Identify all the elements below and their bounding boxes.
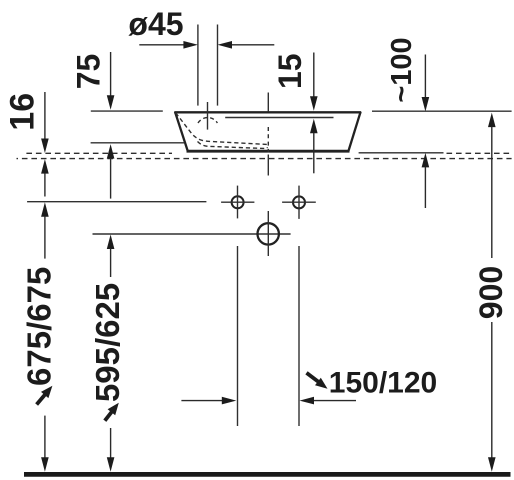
dim 900 line upper	[488, 113, 496, 128]
drain vertical centerline	[207, 102, 209, 130]
dim 75 line lower	[107, 144, 115, 159]
big circle crosshair v	[267, 211, 269, 256]
dim ø45 left arrow	[139, 44, 184, 46]
counter top dashed line right	[447, 152, 512, 154]
dim 150/120 extension line left	[237, 246, 239, 426]
drain hole dashed circle	[198, 118, 217, 123]
dim ~100 line upper	[424, 55, 426, 99]
svg-text:900: 900	[473, 266, 509, 319]
dim 900 line lower	[491, 322, 493, 458]
dim 675/675 line upper	[41, 202, 49, 217]
dim ~100 line lower	[422, 153, 430, 168]
dim 15 line upper	[313, 53, 315, 98]
small circle left crosshair h	[221, 201, 254, 203]
dim 595/625 line lower	[110, 428, 112, 458]
small circle right crosshair h	[282, 201, 316, 203]
big circle (water outlet)	[258, 223, 279, 244]
basin rim top	[174, 111, 361, 113]
hole pattern extension line (small circles level)	[27, 201, 206, 203]
fixture centerline hidden in basin	[267, 127, 269, 153]
dim ø45 extension line right	[217, 25, 219, 106]
small circle left (fixing hole)	[232, 196, 244, 208]
basin bottom	[187, 150, 350, 153]
dim 15 line lower	[310, 119, 318, 134]
floor line	[24, 472, 511, 477]
dim 16 line lower	[41, 159, 49, 174]
fixture centerline below basin	[267, 155, 269, 176]
svg-text:675/675: 675/675	[21, 267, 58, 386]
dim 150/120 leader arrow	[307, 373, 319, 382]
svg-text:~100: ~100	[386, 37, 418, 102]
dim 595/625 leader arrow	[105, 412, 112, 421]
hole pattern extension line (big circle level)	[93, 233, 291, 235]
basin left wall	[175, 112, 188, 152]
dim 675/675 leader arrow	[37, 394, 46, 405]
small circle right crosshair v	[298, 186, 300, 219]
small circle right (fixing hole)	[293, 196, 305, 208]
rim level extension line left	[91, 110, 163, 112]
dim ø45 right arrow	[231, 44, 274, 46]
fixture centerline above basin	[267, 93, 269, 112]
svg-text:75: 75	[71, 54, 107, 90]
counter top dashed line left	[26, 152, 172, 154]
svg-text:15: 15	[272, 53, 308, 89]
basin right wall	[348, 112, 360, 152]
bowl interior hidden curve upper	[176, 113, 268, 148]
svg-text:150/120: 150/120	[329, 366, 437, 399]
counter bottom dashed line	[17, 158, 512, 160]
dim ø45 extension line left	[197, 25, 199, 106]
dim 150/120 right arrow	[313, 400, 356, 402]
svg-text:16: 16	[3, 93, 41, 131]
dim 75 line upper	[110, 52, 112, 96]
bowl interior hidden curve lower	[198, 142, 268, 149]
bowl bottom level extension line	[91, 142, 185, 144]
dim 675/675 line lower	[44, 416, 46, 458]
basin inner rim line	[225, 117, 333, 119]
small circle left crosshair v	[237, 186, 239, 219]
dim 16 line upper	[44, 92, 46, 139]
rim level extension line right	[372, 110, 512, 112]
counter top extension solid right	[359, 152, 444, 154]
dim 150/120 extension line right	[298, 246, 300, 426]
dim 595/625 line upper	[107, 235, 115, 250]
svg-text:595/625: 595/625	[89, 283, 126, 402]
svg-text:ø45: ø45	[128, 6, 183, 42]
dim 150/120 left arrow	[181, 400, 222, 402]
